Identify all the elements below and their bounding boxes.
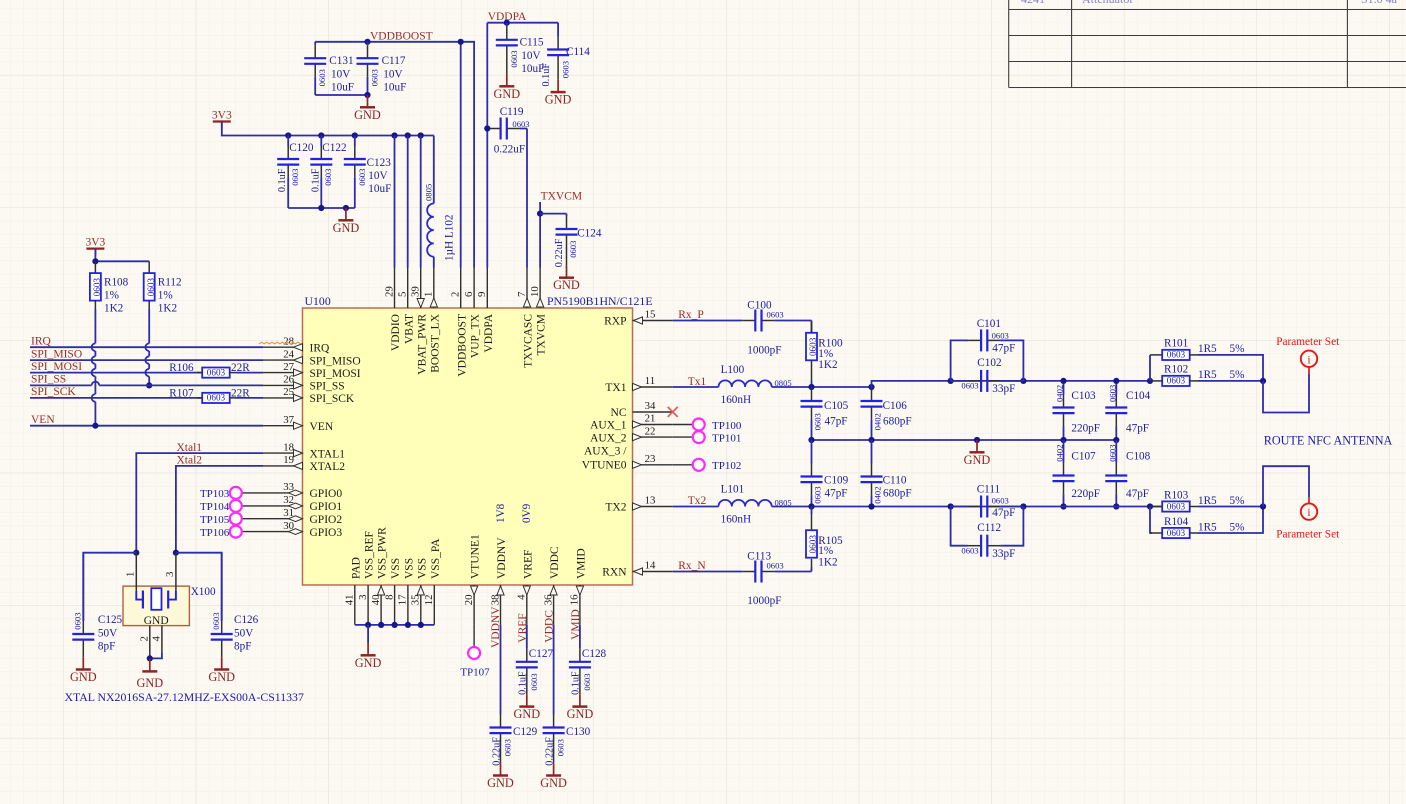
svg-text:10V: 10V — [521, 50, 540, 62]
svg-text:47pF: 47pF — [825, 488, 848, 500]
wire 3V3 to pin 29 — [394, 136, 396, 268]
wire R103 out — [1198, 506, 1263, 508]
U100 pin 1 (BOOST_LX) — [423, 268, 442, 373]
junction — [504, 20, 510, 26]
svg-text:C119: C119 — [500, 106, 524, 118]
U100 pin 13 (TX2) — [605, 495, 672, 514]
svg-text:47pF: 47pF — [825, 415, 848, 427]
svg-text:33pF: 33pF — [992, 383, 1015, 395]
svg-text:0603: 0603 — [1108, 445, 1118, 462]
svg-text:680pF: 680pF — [883, 488, 912, 500]
resistor R107 22R — [197, 397, 202, 399]
svg-text:1: 1 — [125, 572, 137, 577]
junction — [458, 39, 464, 45]
wire SPI_SS — [30, 384, 92, 386]
svg-text:5: 5 — [397, 292, 409, 297]
svg-text:VMID: VMID — [576, 548, 588, 579]
svg-text:1V8: 1V8 — [495, 503, 507, 523]
svg-text:TP104: TP104 — [200, 501, 230, 513]
wire TX2 line — [812, 506, 1163, 508]
svg-text:GND: GND — [487, 776, 514, 790]
svg-text:TX1: TX1 — [605, 382, 626, 394]
capacitor C131 — [314, 42, 316, 45]
ground GND below C115 — [506, 74, 508, 86]
U100 pin 11 (TX1) — [605, 375, 672, 394]
junction — [285, 132, 291, 138]
wire SPI_MOSI left — [30, 372, 202, 374]
wire C119 to pin 7 — [526, 129, 528, 268]
wire jog up to upper TX1 line — [872, 381, 1151, 387]
svg-text:41: 41 — [344, 595, 356, 606]
test point TP103 — [200, 487, 263, 500]
svg-text:1%: 1% — [158, 290, 173, 302]
svg-text:8: 8 — [383, 595, 395, 600]
wire R104 out — [1198, 507, 1263, 534]
junction — [418, 622, 424, 628]
U100 pin 5 (VBAT) — [397, 268, 416, 345]
ground GND mid bus — [976, 440, 978, 452]
svg-text:i: i — [1307, 354, 1310, 366]
junction — [974, 437, 980, 443]
svg-text:C108: C108 — [1126, 451, 1151, 463]
ground GND below C129 — [500, 763, 502, 775]
wire VSS bus — [355, 624, 435, 626]
junction — [1060, 503, 1066, 509]
svg-text:0603: 0603 — [317, 69, 327, 86]
svg-text:Parameter Set: Parameter Set — [1276, 336, 1340, 348]
svg-text:TP107: TP107 — [460, 667, 490, 679]
svg-text:7: 7 — [516, 291, 528, 297]
inductor L100 160nH — [673, 386, 719, 388]
svg-text:Parameter Set: Parameter Set — [1276, 528, 1340, 540]
svg-text:1R5: 1R5 — [1198, 522, 1217, 534]
junction — [1147, 378, 1153, 384]
svg-text:NC: NC — [611, 407, 627, 419]
ground GND below C130 — [553, 763, 555, 775]
svg-text:TP101: TP101 — [712, 432, 741, 444]
X100 pins 2 and 4 to ground — [149, 626, 151, 655]
U100 pin 2 (VDDBOOST) — [450, 268, 469, 377]
svg-text:0603: 0603 — [509, 50, 519, 67]
ground GND below C122 — [345, 208, 347, 220]
U100 pin 30 (GPIO3) — [263, 520, 342, 539]
svg-text:VEN: VEN — [310, 421, 334, 433]
svg-text:C123: C123 — [367, 157, 392, 169]
svg-text:C115: C115 — [520, 37, 544, 49]
capacitor C126 8pF — [221, 553, 223, 621]
svg-text:R106: R106 — [169, 362, 194, 374]
junction — [1113, 378, 1119, 384]
U100 pin 40 (VSS_PWR) — [370, 527, 389, 625]
capacitor C113 1000pF — [673, 571, 743, 573]
svg-text:1%: 1% — [104, 290, 119, 302]
resistor R108 1K2 — [94, 261, 96, 273]
U100 pin 29 (VDDIO) — [383, 268, 402, 352]
U100 pin 38 (VDDNV) — [489, 537, 508, 625]
svg-text:C130: C130 — [566, 726, 591, 738]
svg-text:0402: 0402 — [1055, 385, 1065, 402]
svg-text:R103: R103 — [1164, 489, 1189, 501]
svg-text:SPI_MOSI: SPI_MOSI — [310, 368, 361, 380]
wire R101 out — [1198, 355, 1263, 381]
U100 pin 7 (TXVCASC) — [516, 268, 535, 368]
svg-text:C126: C126 — [234, 614, 259, 626]
svg-text:5%: 5% — [1230, 495, 1245, 507]
U100 pin 24 (SPI_MISO) — [263, 348, 361, 367]
svg-text:47pF: 47pF — [992, 507, 1015, 519]
wire VDDPA rail — [487, 22, 558, 24]
svg-text:5%: 5% — [1230, 522, 1245, 534]
svg-text:AUX_2: AUX_2 — [590, 432, 627, 444]
svg-text:0603: 0603 — [568, 241, 578, 258]
svg-text:4241: 4241 — [1021, 0, 1045, 6]
svg-text:ROUTE NFC ANTENNA: ROUTE NFC ANTENNA — [1264, 434, 1393, 448]
svg-text:SPI_SCK: SPI_SCK — [310, 393, 355, 405]
junction — [318, 205, 324, 211]
junction — [364, 39, 370, 45]
svg-text:0603: 0603 — [529, 673, 539, 690]
svg-text:SPI_SS: SPI_SS — [310, 381, 345, 393]
capacitor C104 47pF — [1115, 381, 1117, 395]
svg-text:0603: 0603 — [207, 367, 226, 377]
svg-text:PN5190B1HN/C121E: PN5190B1HN/C121E — [547, 294, 653, 308]
svg-text:VBAT_PWR: VBAT_PWR — [416, 314, 428, 375]
svg-text:C106: C106 — [883, 400, 908, 412]
svg-text:680pF: 680pF — [883, 415, 912, 427]
svg-text:TP106: TP106 — [200, 527, 230, 539]
svg-text:1R5: 1R5 — [1198, 369, 1217, 381]
svg-text:9: 9 — [476, 292, 488, 297]
svg-text:GND: GND — [333, 221, 360, 235]
U100 pin 12 (VSS_PA) — [423, 538, 442, 625]
svg-text:TP100: TP100 — [712, 420, 742, 432]
U100 pin 15 (RXP) — [604, 309, 673, 328]
svg-text:2: 2 — [138, 636, 150, 641]
U100 pin 18 (XTAL1) — [263, 441, 345, 460]
inductor L101 160nH — [673, 506, 719, 508]
ground GND below X100 — [149, 658, 151, 671]
svg-text:40: 40 — [370, 595, 382, 606]
U100 pin 35 (VSS) — [410, 558, 429, 625]
svg-text:C120: C120 — [289, 142, 314, 154]
parameter set directive (top) — [1308, 367, 1310, 374]
svg-text:0603: 0603 — [961, 380, 978, 390]
svg-text:VTUNE0: VTUNE0 — [582, 460, 627, 472]
svg-text:R101: R101 — [1164, 338, 1188, 350]
svg-text:3V3: 3V3 — [85, 236, 105, 248]
svg-text:34: 34 — [645, 400, 656, 412]
test point TP106 — [200, 526, 263, 539]
svg-text:GND: GND — [144, 615, 169, 627]
svg-text:27: 27 — [283, 361, 294, 373]
svg-text:0.22uF: 0.22uF — [494, 144, 525, 156]
junction — [318, 132, 324, 138]
wire R107 to pin 25 — [236, 397, 263, 399]
U100 pin 36 (VDDC) — [542, 546, 561, 625]
svg-text:6: 6 — [463, 291, 475, 297]
svg-text:GND: GND — [964, 453, 991, 467]
svg-text:C101: C101 — [977, 318, 1001, 330]
junction — [1147, 503, 1153, 509]
svg-text:4: 4 — [150, 636, 162, 642]
svg-text:0.1uF: 0.1uF — [518, 671, 529, 695]
wire IRQ — [30, 346, 263, 348]
resistor R102 1R5 5% — [1150, 380, 1162, 382]
parameter set directive (bottom) — [1308, 497, 1310, 503]
svg-text:C124: C124 — [577, 228, 602, 240]
IC U100 body PN5190B1HN/C121E — [303, 308, 633, 585]
svg-text:TXVCASC: TXVCASC — [523, 314, 535, 368]
svg-text:Attenuator: Attenuator — [1082, 0, 1133, 6]
svg-text:47pF: 47pF — [992, 343, 1015, 355]
ground GND below C125 — [82, 657, 84, 669]
capacitor C109 47pF — [811, 440, 813, 464]
capacitor C130 0.22uF — [553, 715, 555, 728]
svg-text:IRQ: IRQ — [310, 342, 331, 354]
svg-text:26: 26 — [283, 374, 294, 386]
svg-text:0.1uF: 0.1uF — [277, 168, 288, 192]
no-connect cross on pin 34 — [668, 407, 678, 417]
junction — [808, 384, 814, 390]
wire 3V3 rail — [222, 122, 434, 136]
svg-text:3: 3 — [164, 572, 176, 577]
test point TP105 — [200, 513, 263, 526]
wire split to R101 — [1149, 355, 1151, 381]
junction — [405, 132, 411, 138]
svg-text:0.22uF: 0.22uF — [491, 737, 502, 766]
svg-text:XTAL NX2016SA-27.12MHZ-EXS00A-: XTAL NX2016SA-27.12MHZ-EXS00A-CS11337 — [65, 690, 304, 704]
capacitor C129 0.22uF — [500, 715, 502, 728]
svg-text:10uF: 10uF — [383, 82, 406, 94]
capacitor C100 1000pF — [673, 320, 743, 322]
wire VDDBOOST rail — [315, 42, 474, 268]
svg-text:17: 17 — [397, 594, 409, 605]
svg-text:GND: GND — [553, 278, 580, 292]
svg-text:50V: 50V — [98, 627, 117, 639]
svg-text:0603: 0603 — [992, 331, 1009, 341]
svg-text:0402: 0402 — [1055, 445, 1065, 462]
svg-text:VSS_PA: VSS_PA — [430, 538, 442, 579]
svg-text:1K2: 1K2 — [104, 303, 123, 315]
junction — [133, 550, 139, 556]
junction — [418, 132, 424, 138]
svg-text:0.22uF: 0.22uF — [554, 238, 565, 267]
svg-text:4: 4 — [516, 594, 528, 600]
svg-text:GND: GND — [70, 670, 97, 684]
wire to C125 — [83, 553, 136, 621]
svg-text:C103: C103 — [1071, 390, 1096, 402]
svg-text:TP102: TP102 — [712, 460, 741, 472]
U100 pin 32 (GPIO1) — [263, 494, 342, 513]
svg-text:2: 2 — [450, 292, 462, 297]
wire TX1 node to jog — [812, 386, 872, 388]
junction — [391, 132, 397, 138]
U100 pin 22 (AUX_2) — [590, 425, 673, 444]
U100 pin 37 (VEN) — [263, 414, 334, 433]
svg-text:0603: 0603 — [582, 673, 592, 690]
junction — [92, 258, 98, 264]
svg-text:C122: C122 — [322, 142, 346, 154]
junction — [1020, 503, 1026, 509]
wire VDDPA to pin 9 — [486, 23, 488, 268]
junction — [392, 622, 398, 628]
junction — [1260, 378, 1266, 384]
svg-text:160nH: 160nH — [721, 394, 751, 406]
ground GND below C127 — [526, 694, 528, 706]
svg-text:0603: 0603 — [813, 487, 823, 504]
svg-text:GPIO1: GPIO1 — [310, 501, 343, 513]
svg-text:10V: 10V — [368, 170, 387, 182]
svg-text:0805: 0805 — [424, 184, 434, 201]
junction — [1260, 503, 1266, 509]
svg-text:19: 19 — [283, 454, 294, 466]
svg-text:VREF: VREF — [522, 550, 534, 579]
svg-text:0603: 0603 — [1167, 501, 1186, 511]
capacitor C127 0.1uF — [526, 649, 528, 662]
svg-text:0603: 0603 — [961, 545, 978, 555]
svg-text:C111: C111 — [977, 483, 1000, 495]
svg-text:0603: 0603 — [503, 739, 513, 756]
svg-text:14: 14 — [645, 560, 656, 572]
test point TP104 — [200, 500, 263, 513]
svg-text:i: i — [1307, 507, 1310, 519]
svg-text:47pF: 47pF — [1126, 488, 1149, 500]
svg-text:21: 21 — [645, 413, 656, 425]
svg-text:GND: GND — [208, 670, 235, 684]
svg-text:SPI_SCK: SPI_SCK — [31, 386, 76, 398]
test point TP101 — [673, 431, 742, 444]
svg-text:0603: 0603 — [1108, 385, 1118, 402]
capacitor C103 220pF — [1063, 381, 1065, 395]
svg-text:0402: 0402 — [873, 487, 883, 504]
U100 pin 9 (VDDPA) — [476, 268, 495, 353]
svg-text:24: 24 — [283, 348, 294, 360]
wire SPI_SCK left — [30, 397, 202, 399]
svg-text:5%: 5% — [1230, 343, 1245, 355]
svg-text:0603: 0603 — [290, 169, 300, 186]
svg-text:0603: 0603 — [1167, 528, 1186, 538]
ground GND below C128 — [579, 694, 581, 706]
wire pin4 to C127 — [526, 625, 528, 649]
svg-text:SPI_MISO: SPI_MISO — [310, 355, 361, 367]
svg-text:16: 16 — [569, 594, 581, 605]
wire R105 to RXN line — [811, 567, 813, 572]
svg-text:0603: 0603 — [211, 613, 221, 630]
svg-text:VTUNE1: VTUNE1 — [470, 534, 482, 579]
wire VSS bus to ground — [367, 625, 369, 643]
compile-warning squiggle on IRQ pin — [259, 342, 301, 344]
svg-text:VUP_TX: VUP_TX — [470, 313, 482, 358]
svg-text:0603: 0603 — [767, 561, 784, 571]
svg-text:50V: 50V — [234, 627, 253, 639]
wire R100 to TX1 line — [811, 381, 813, 387]
wire split to R104 — [1150, 507, 1152, 534]
resistor R105 1K2 — [811, 507, 813, 515]
U100 pin 21 (AUX_1) — [590, 413, 673, 432]
wire 3V3 to R108 R112 — [94, 249, 96, 262]
svg-text:AUX_3 /: AUX_3 / — [584, 445, 627, 457]
svg-text:0603: 0603 — [767, 310, 784, 320]
svg-text:TXVCM: TXVCM — [536, 314, 548, 356]
wire XTAL1 — [136, 453, 263, 553]
svg-text:GPIO0: GPIO0 — [310, 488, 343, 500]
svg-text:VSS: VSS — [390, 558, 402, 579]
junction — [1060, 437, 1066, 443]
svg-text:3V3: 3V3 — [212, 109, 232, 121]
svg-text:0.1uF: 0.1uF — [571, 671, 582, 695]
junction — [92, 423, 98, 429]
svg-text:X100: X100 — [191, 586, 216, 598]
capacitor C122 — [320, 136, 322, 147]
svg-text:R102: R102 — [1164, 364, 1188, 376]
svg-text:VSS_PWR: VSS_PWR — [377, 527, 389, 579]
svg-text:Rx_P: Rx_P — [678, 309, 704, 321]
svg-text:220pF: 220pF — [1071, 488, 1100, 500]
inductor L102 1uH — [433, 136, 435, 204]
svg-text:18: 18 — [283, 441, 294, 453]
svg-text:35: 35 — [410, 595, 422, 606]
U100 pin 31 (GPIO2) — [263, 507, 342, 526]
svg-text:C117: C117 — [382, 55, 406, 67]
capacitor C120 — [287, 136, 289, 147]
junction — [364, 92, 370, 98]
U100 pin 10 (TXVCM) — [529, 268, 548, 356]
svg-text:39: 39 — [410, 286, 422, 297]
U100 pin 17 (VSS) — [397, 558, 416, 625]
capacitor C125 8pF — [82, 553, 84, 621]
junction — [1113, 437, 1119, 443]
svg-text:3: 3 — [357, 595, 369, 600]
svg-text:C107: C107 — [1071, 451, 1096, 463]
wire pin38 to C129 — [500, 625, 502, 715]
capacitor C119 0.22uF — [486, 128, 488, 130]
junction — [405, 622, 411, 628]
U100 pin 41 (PAD) — [344, 557, 363, 625]
wire R102 out — [1198, 380, 1263, 382]
svg-text:10uF: 10uF — [331, 82, 354, 94]
svg-text:0.22uF: 0.22uF — [544, 737, 555, 766]
capacitor C111 47pF in series — [951, 506, 969, 508]
svg-text:GND: GND — [136, 676, 163, 690]
svg-text:XTAL1: XTAL1 — [310, 448, 346, 460]
svg-text:15: 15 — [645, 309, 656, 321]
svg-text:10uF: 10uF — [368, 183, 391, 195]
ground GND below C124 — [566, 265, 568, 277]
capacitor C107 220pF — [1063, 440, 1065, 463]
svg-text:VDDBOOST: VDDBOOST — [370, 31, 433, 43]
wire VDDBOOST to pin 2 — [460, 42, 462, 268]
U100 pin 27 (SPI_MOSI) — [263, 361, 361, 380]
wire C131 C117 ground link — [315, 94, 367, 96]
wire C100 to R100 — [811, 321, 813, 333]
U100 pin 23 (AUX_3/VTUNE0) — [582, 445, 673, 471]
svg-text:SPI_MISO: SPI_MISO — [31, 348, 82, 360]
wire TXVCM to pin 10 — [539, 202, 541, 268]
svg-text:28: 28 — [283, 335, 294, 347]
wire to parameter set port (top) — [1263, 374, 1309, 413]
svg-text:VEN: VEN — [31, 414, 55, 426]
junction — [378, 622, 384, 628]
svg-text:C109: C109 — [824, 475, 849, 487]
junction — [352, 132, 358, 138]
svg-text:0603: 0603 — [357, 169, 367, 186]
U100 pin 26 (SPI_SS) — [263, 374, 345, 393]
U100 pin 39 (VBAT_PWR) — [410, 268, 429, 375]
wire VEN — [30, 425, 263, 427]
svg-text:L101: L101 — [721, 484, 745, 496]
capacitor C114 — [557, 23, 559, 37]
U100 pin 8 (VSS) — [383, 558, 402, 625]
